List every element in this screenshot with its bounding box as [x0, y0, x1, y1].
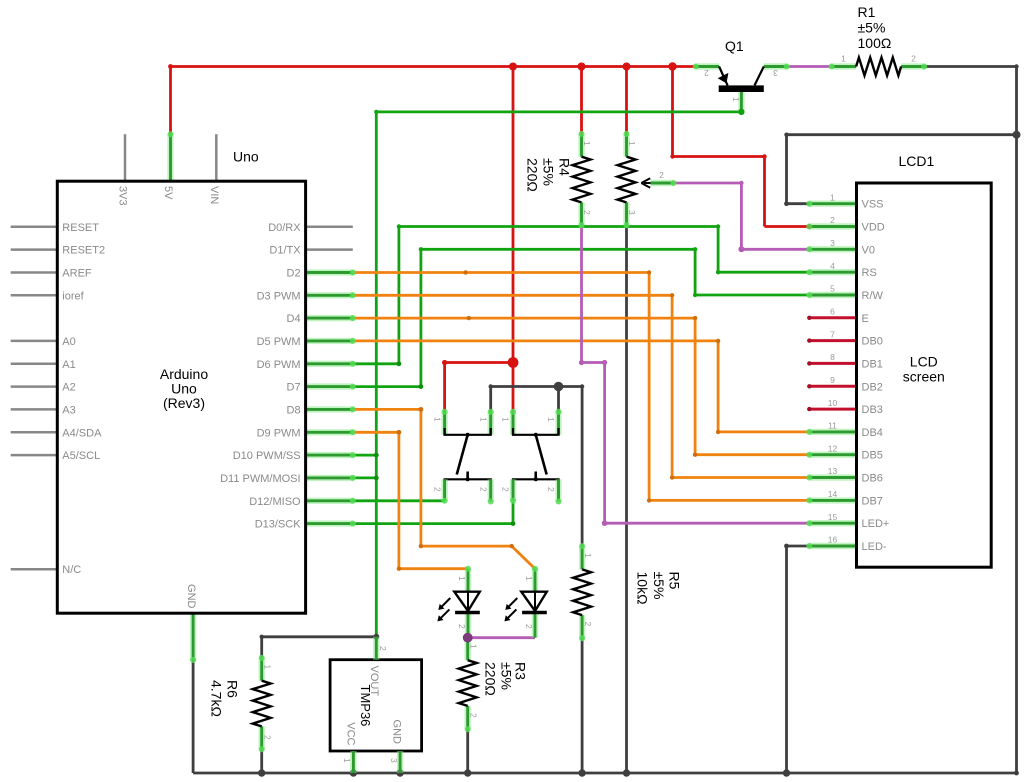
- svg-text:5: 5: [830, 284, 835, 294]
- junction dot gray at button S2 pin1: [489, 382, 585, 392]
- Arduino VIN stub (gray): [215, 134, 218, 181]
- bend dots orange D5 route: [716, 339, 720, 434]
- svg-text:VOUT: VOUT: [368, 666, 380, 697]
- svg-text:ioref: ioref: [62, 290, 84, 302]
- wire R3 pin2 to ground bus (gray): [466, 729, 469, 773]
- svg-text:D9 PWM: D9 PWM: [257, 427, 301, 439]
- bend dots green D7-R/W route: [419, 247, 698, 389]
- svg-text:12: 12: [828, 443, 838, 453]
- wire buttons common to R5 pin1 (gray): [491, 387, 582, 547]
- label R5 value block (rotated): [635, 572, 683, 605]
- svg-text:VSS: VSS: [862, 199, 884, 211]
- bend dots orange D2 route: [463, 270, 651, 502]
- svg-text:2: 2: [830, 215, 835, 225]
- Arduino right pin labels: [220, 222, 301, 531]
- svg-text:15: 15: [828, 512, 838, 522]
- svg-text:DB4: DB4: [862, 427, 883, 439]
- wire D10 to column (green): [353, 454, 377, 457]
- svg-text:14: 14: [828, 489, 838, 499]
- pushbutton S1 (4-pin): [445, 412, 491, 502]
- svg-text:DB6: DB6: [862, 473, 883, 485]
- LCD pin leads (connected pins): [809, 204, 856, 546]
- wire D13 to button S2 pin2 (green): [353, 502, 513, 524]
- label R1 value block: [858, 4, 892, 51]
- TMP36 body box: [330, 660, 422, 751]
- wire 5V drop to pushbuttons at x=513 (red): [512, 67, 515, 412]
- svg-text:±5%: ±5%: [499, 662, 515, 690]
- svg-text:1: 1: [582, 141, 592, 146]
- svg-text:1: 1: [501, 417, 511, 422]
- Arduino bottom pin label GND (rotated): [185, 584, 197, 609]
- junction dot green Q1 base: [374, 109, 745, 115]
- svg-text:DB1: DB1: [862, 358, 883, 370]
- svg-text:RS: RS: [862, 267, 877, 279]
- svg-text:2: 2: [478, 487, 488, 492]
- svg-text:3: 3: [627, 210, 637, 215]
- svg-text:7: 7: [830, 329, 835, 339]
- Arduino left pin labels: [62, 222, 105, 576]
- svg-text:8: 8: [830, 352, 835, 362]
- svg-text:(Rev3): (Rev3): [163, 395, 205, 411]
- TMP36 VCC pin lead: [350, 751, 356, 773]
- svg-text:1: 1: [478, 417, 488, 422]
- svg-text:2: 2: [432, 487, 442, 492]
- svg-text:4.7kΩ: 4.7kΩ: [208, 680, 224, 717]
- wire D3 to LCD DB6 (orange): [353, 295, 810, 477]
- svg-text:1: 1: [342, 758, 352, 763]
- svg-text:DB7: DB7: [862, 495, 883, 507]
- LED pin numbers (rotated): [457, 576, 534, 629]
- Arduino Uno body box: [57, 181, 305, 613]
- junction dot gray LED- corner: [784, 544, 789, 549]
- svg-text:A3: A3: [62, 404, 75, 416]
- svg-text:4: 4: [830, 261, 835, 271]
- svg-text:±5%: ±5%: [651, 572, 667, 600]
- LCD E, DB0-DB3 unconnected stubs (red): [807, 316, 856, 412]
- svg-text:2: 2: [583, 622, 593, 627]
- svg-text:2: 2: [457, 624, 467, 629]
- svg-text:D4: D4: [287, 313, 301, 325]
- wire D4 to LCD DB5 (orange): [353, 318, 810, 455]
- svg-text:R/W: R/W: [862, 290, 884, 302]
- svg-text:RESET2: RESET2: [62, 245, 105, 257]
- resistor R6 4.7k (vertical, bottom left): [253, 658, 271, 749]
- R3 pin numbers (rotated): [468, 644, 478, 718]
- wire red branch to button S1 pin1: [445, 363, 513, 412]
- svg-text:3: 3: [389, 758, 399, 763]
- svg-text:2: 2: [704, 68, 709, 78]
- svg-text:3: 3: [830, 238, 835, 248]
- label R6 value block (rotated): [208, 680, 240, 717]
- junction dot gray right edge VSS branch: [784, 64, 1020, 206]
- Arduino D0/RX and D1/TX stubs (gray): [306, 227, 353, 250]
- svg-text:D11 PWM/MOSI: D11 PWM/MOSI: [220, 473, 300, 485]
- svg-text:1: 1: [627, 141, 637, 146]
- svg-text:16: 16: [828, 535, 838, 545]
- svg-text:6: 6: [830, 307, 835, 317]
- svg-text:D12/MISO: D12/MISO: [249, 496, 301, 508]
- LCD pin labels: [862, 199, 890, 553]
- wire 5V to LCD VDD (red): [673, 67, 810, 227]
- svg-text:R4: R4: [557, 158, 573, 176]
- Arduino top pin labels 3V3 5V VIN (rotated): [117, 186, 220, 206]
- svg-text:screen: screen: [903, 369, 945, 385]
- wire D7 to LCD R/W (green): [353, 249, 810, 386]
- svg-text:13: 13: [828, 466, 838, 476]
- wire D10/D11 column to Q1 base and TMP36 VOUT (green): [376, 112, 741, 637]
- svg-text:1: 1: [830, 192, 835, 202]
- R4 pin numbers (rotated): [582, 141, 592, 215]
- svg-text:D13/SCK: D13/SCK: [255, 519, 302, 531]
- bend dots orange D4 route: [467, 316, 698, 457]
- label R3 value block (rotated): [483, 662, 529, 696]
- svg-text:E: E: [862, 313, 869, 325]
- wire LED1 cathode to LED2 cathode (purple): [468, 636, 535, 639]
- wire 5V drop to potentiometer pin1 (red): [625, 67, 628, 134]
- bend dots orange D8-LED2 route: [419, 407, 514, 548]
- svg-text:1: 1: [262, 665, 272, 670]
- LCD1 body box: [857, 183, 992, 567]
- lead tip highlight dots: [168, 64, 928, 753]
- button S1 pin numbers (rotated): [432, 417, 488, 492]
- wire 5V drop to R4 pin1 (red): [580, 67, 583, 134]
- resistor R3 220 ohm (vertical, bottom): [459, 638, 477, 730]
- svg-text:DB3: DB3: [862, 404, 883, 416]
- wire D5 to LCD DB4 (orange): [353, 341, 810, 432]
- svg-text:D1/TX: D1/TX: [269, 245, 301, 257]
- bend dots green D10/D11 column: [374, 453, 379, 481]
- svg-text:3: 3: [773, 68, 778, 78]
- svg-text:D6 PWM: D6 PWM: [257, 359, 301, 371]
- svg-text:LED-: LED-: [862, 541, 887, 553]
- R6 pin numbers (rotated): [262, 665, 272, 741]
- svg-text:LCD1: LCD1: [899, 153, 935, 169]
- svg-text:10kΩ: 10kΩ: [635, 572, 651, 605]
- svg-text:3V3: 3V3: [117, 186, 129, 206]
- wire bottom ground bus (gray): [193, 772, 1016, 775]
- wire D2 to LCD DB7 (orange): [353, 273, 810, 501]
- svg-text:1: 1: [546, 417, 556, 422]
- junction dots on ground bus: [258, 769, 1019, 776]
- Arduino 5V pin lead: [167, 134, 173, 181]
- svg-text:1: 1: [432, 417, 442, 422]
- svg-text:1: 1: [841, 54, 846, 64]
- wire D12 to button S1 pin2 (green): [353, 499, 445, 502]
- svg-text:V0: V0: [862, 244, 875, 256]
- svg-text:D2: D2: [287, 268, 301, 280]
- svg-text:220Ω: 220Ω: [525, 158, 541, 192]
- svg-text:9: 9: [830, 375, 835, 385]
- svg-text:Uno: Uno: [233, 149, 259, 165]
- wire 5V top bus horizontal (red): [169, 65, 696, 68]
- svg-text:2: 2: [911, 54, 916, 64]
- wire R4 pin2 to LCD LED+ (purple): [582, 225, 810, 523]
- R5 pin numbers (rotated): [583, 553, 593, 627]
- wire TMP36 VOUT junction to R6 pin1 (gray): [262, 637, 377, 658]
- wire Arduino GND to ground bus (gray): [192, 660, 195, 773]
- svg-text:220Ω: 220Ω: [483, 662, 499, 696]
- label LCD screen center: [903, 354, 945, 385]
- svg-text:D10 PWM/SS: D10 PWM/SS: [233, 450, 301, 462]
- bend dots green D6-RS route: [397, 224, 721, 366]
- svg-text:A4/SDA: A4/SDA: [62, 427, 102, 439]
- bend dots purple V0 route: [738, 181, 744, 253]
- junction dot red at buttons: [442, 357, 518, 368]
- wire potentiometer pin3 to ground bus (gray): [625, 225, 628, 773]
- wire D9 to LED1 anode (orange): [353, 432, 468, 568]
- svg-text:R6: R6: [224, 680, 240, 698]
- svg-text:A1: A1: [62, 359, 75, 371]
- svg-text:R5: R5: [667, 572, 683, 590]
- svg-text:LCD: LCD: [910, 354, 938, 370]
- svg-text:2: 2: [582, 210, 592, 215]
- svg-text:100Ω: 100Ω: [858, 35, 892, 51]
- button S2 pin numbers (rotated): [501, 417, 557, 492]
- TMP36 VOUT pin lead: [373, 637, 379, 660]
- svg-text:A5/SCL: A5/SCL: [62, 450, 100, 462]
- svg-text:GND: GND: [391, 720, 403, 745]
- svg-text:1: 1: [524, 576, 534, 581]
- wire R5 pin2 to ground bus (gray): [581, 638, 584, 773]
- svg-text:VCC: VCC: [345, 722, 357, 745]
- svg-text:GND: GND: [185, 584, 197, 609]
- LCD pin numbers 1-16: [828, 192, 838, 544]
- svg-text:N/C: N/C: [62, 564, 81, 576]
- svg-text:A2: A2: [62, 382, 75, 394]
- TMP36 pin numbers: [342, 646, 399, 763]
- Arduino left side pin stubs (gray): [11, 227, 58, 569]
- svg-text:11: 11: [828, 421, 837, 431]
- svg-text:D8: D8: [287, 404, 301, 416]
- svg-text:1: 1: [583, 553, 593, 558]
- Arduino D2-D13 pin leads: [306, 273, 353, 524]
- junction dots on 5V bus: [168, 62, 677, 70]
- svg-text:D3 PWM: D3 PWM: [257, 290, 301, 302]
- svg-text:Q1: Q1: [725, 38, 744, 54]
- svg-text:2: 2: [546, 487, 556, 492]
- svg-text:±5%: ±5%: [858, 20, 886, 36]
- TMP36 part name (rotated): [358, 685, 373, 727]
- resistor R1 100 ohm (horizontal, top right): [832, 58, 925, 76]
- svg-text:D7: D7: [287, 382, 301, 394]
- svg-text:1: 1: [468, 644, 478, 649]
- svg-text:DB2: DB2: [862, 381, 883, 393]
- transistor Q1 (PNP, base bar + emitter arrow): [696, 67, 787, 112]
- Q1 pin numbers: [704, 68, 778, 102]
- resistor R5 10k (vertical, middle): [573, 546, 591, 638]
- junction dot purple LED cathodes: [463, 633, 473, 643]
- svg-text:±5%: ±5%: [541, 158, 557, 186]
- svg-text:VIN: VIN: [208, 186, 220, 204]
- wire R6 pin2 to ground bus (gray): [260, 749, 263, 773]
- svg-text:2: 2: [468, 713, 478, 718]
- svg-text:D0/RX: D0/RX: [268, 222, 301, 234]
- wire potentiometer wiper to LCD V0 (purple): [674, 183, 810, 249]
- svg-text:5V: 5V: [162, 186, 174, 200]
- label Uno (Arduino part label): [233, 149, 259, 165]
- wire D8 to LED2 anode (orange): [353, 409, 535, 568]
- wire D11 to column (green): [353, 476, 377, 479]
- svg-text:RESET: RESET: [62, 222, 99, 234]
- wire GND branch to LCD VSS (gray): [787, 135, 1017, 204]
- pushbutton S2 (4-pin): [513, 412, 559, 502]
- wire Q1 pin3 to R1 pin1 (purple): [787, 65, 832, 68]
- svg-text:AREF: AREF: [62, 268, 92, 280]
- svg-text:2: 2: [378, 646, 388, 651]
- label R4 value block (rotated): [525, 158, 573, 192]
- label Q1 part name: [725, 38, 744, 54]
- svg-text:VDD: VDD: [862, 222, 885, 234]
- bend dots red VDD path: [670, 154, 811, 229]
- svg-text:2: 2: [262, 735, 272, 740]
- resistor R4 220 ohm (vertical): [573, 134, 591, 225]
- label Arduino Uno (Rev3) center: [160, 366, 208, 411]
- wire D6 to LCD RS (green): [353, 227, 810, 364]
- svg-text:A0: A0: [62, 336, 75, 348]
- TMP36 pin labels VOUT VCC GND (rotated): [345, 666, 403, 746]
- potentiometer R2 (vertical resistor with wiper arrow): [618, 134, 674, 225]
- svg-text:1: 1: [731, 97, 741, 102]
- wire 5V riser from Arduino 5V pin to top bus (red): [169, 67, 172, 135]
- svg-text:DB0: DB0: [862, 336, 883, 348]
- wire LCD LED- to ground bus (gray): [787, 546, 810, 773]
- bend dots orange D9-LED1 route: [397, 430, 402, 571]
- TMP36 GND pin lead: [397, 751, 403, 773]
- LED2 (right LED): [504, 569, 546, 638]
- LED1 (left LED): [437, 569, 479, 638]
- bend dot green D13 corner: [511, 521, 516, 526]
- junction dot gray TMP36 VOUT node: [260, 634, 380, 640]
- Arduino GND pin lead: [190, 613, 196, 660]
- svg-text:2: 2: [501, 487, 511, 492]
- wire R1 pin2 to right edge and down (gray GND net): [924, 67, 1016, 774]
- svg-text:DB5: DB5: [862, 450, 883, 462]
- label LCD1 part name: [899, 153, 935, 169]
- svg-text:R1: R1: [858, 4, 876, 20]
- Arduino 3V3 stub (gray): [124, 134, 127, 181]
- bend dots orange D3 route: [670, 293, 674, 480]
- potentiometer pin numbers (rotated): [627, 141, 664, 215]
- svg-text:2: 2: [524, 624, 534, 629]
- svg-text:LED+: LED+: [862, 518, 890, 530]
- svg-text:D5 PWM: D5 PWM: [257, 336, 301, 348]
- R1 pin numbers: [841, 54, 916, 64]
- bend dots purple R4-LED+ route: [579, 360, 607, 526]
- svg-text:10: 10: [828, 398, 838, 408]
- wire gray branch to button S2 pin1: [557, 387, 560, 412]
- svg-text:1: 1: [457, 576, 467, 581]
- svg-text:2: 2: [659, 170, 664, 180]
